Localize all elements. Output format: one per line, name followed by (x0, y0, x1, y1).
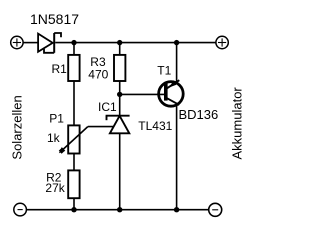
svg-text:Solarzellen: Solarzellen (10, 95, 25, 159)
svg-text:27k: 27k (45, 181, 65, 195)
svg-text:470: 470 (88, 68, 108, 82)
svg-text:TL431: TL431 (138, 119, 172, 133)
svg-text:IC1: IC1 (98, 100, 117, 114)
svg-text:T1: T1 (157, 64, 171, 78)
svg-text:1N5817: 1N5817 (30, 11, 79, 27)
svg-text:BD136: BD136 (179, 107, 219, 122)
svg-text:1k: 1k (47, 131, 61, 145)
svg-text:Akkumulator: Akkumulator (230, 87, 245, 160)
svg-text:R1: R1 (52, 62, 68, 76)
svg-text:P1: P1 (49, 111, 64, 125)
